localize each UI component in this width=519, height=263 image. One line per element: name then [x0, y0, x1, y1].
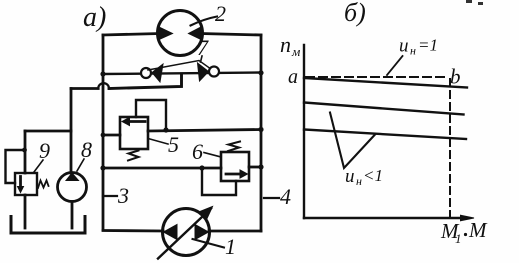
- tee wire to valve 9: [25, 130, 71, 133]
- node pilot tap valve 5: [163, 127, 168, 132]
- label 3 line tick: [103, 195, 117, 197]
- svg-text:М: М: [468, 218, 488, 242]
- svg-text:а): а): [83, 2, 106, 33]
- wire valve 5 out: [148, 130, 261, 132]
- lever 7 pivot right: [209, 67, 219, 77]
- wire pump 8 to tank: [71, 202, 74, 229]
- valve 6: [202, 142, 249, 196]
- svg-text:1: 1: [225, 234, 236, 259]
- node valve5 out at right rail: [258, 127, 263, 132]
- svg-text:5: 5: [168, 132, 179, 157]
- wire bottom rail left: [103, 229, 163, 232]
- label u_n<1: [345, 166, 383, 188]
- svg-text:9: 9: [39, 138, 50, 163]
- svg-text:а: а: [288, 66, 298, 88]
- branch vertical wire to pump 8: [70, 89, 73, 174]
- wire left rail to valve 6: [103, 167, 221, 170]
- wire bottom rail right: [209, 230, 261, 233]
- x axis label M1: [440, 219, 462, 246]
- valve 9: [6, 148, 49, 195]
- valve 6 pilot loop: [202, 168, 236, 195]
- wire hop over left rail: [98, 83, 109, 88]
- svg-text:б): б): [344, 0, 366, 27]
- wire valve 9 to tank: [24, 195, 27, 228]
- valve 6 spring: [228, 142, 240, 152]
- wire top rail left: [103, 34, 159, 36]
- hydraulic motor 2: [158, 11, 203, 56]
- curve u<1 lower: [304, 130, 466, 140]
- wire top rail right: [201, 34, 261, 36]
- svg-text:6: 6: [192, 139, 203, 164]
- svg-text:u: u: [399, 36, 409, 57]
- wire valve 6 out: [249, 166, 261, 169]
- label 7: [197, 35, 209, 62]
- valve 5: [120, 100, 166, 161]
- wire left rail to valve 5: [103, 134, 120, 137]
- valve 9 pilot loop: [6, 150, 26, 183]
- x axis: [304, 217, 468, 219]
- svg-text:7: 7: [197, 35, 209, 60]
- label 4 line tick: [264, 197, 279, 199]
- lever line wire: [103, 73, 261, 75]
- label u_n=1: [399, 36, 438, 58]
- lever 7 right roller arrow: [198, 63, 209, 81]
- wire from hop to branch: [71, 87, 98, 90]
- wire right rail: [260, 35, 263, 231]
- svg-text:3: 3: [117, 183, 129, 208]
- svg-text:u: u: [345, 166, 355, 187]
- svg-text:н: н: [410, 44, 416, 58]
- svg-text:n: n: [280, 32, 291, 57]
- lever 7 left roller arrow: [152, 64, 163, 82]
- node valve6 line at rail: [100, 165, 105, 170]
- curve u<1 upper: [304, 103, 464, 115]
- axis label n_m: [280, 32, 300, 59]
- svg-text:b: b: [450, 65, 461, 89]
- label 1: [193, 234, 237, 259]
- svg-text:4: 4: [280, 184, 291, 209]
- tank: [11, 217, 85, 234]
- label 2: [191, 1, 227, 26]
- dot before M: [464, 233, 467, 236]
- valve 5 pilot loop: [136, 100, 166, 130]
- pump 1: [158, 207, 213, 259]
- label 9: [34, 138, 50, 172]
- y axis: [303, 45, 305, 218]
- svg-text:м: м: [291, 44, 300, 59]
- node valve6 out at right rail: [258, 164, 263, 169]
- pump 1 variable arrow: [158, 209, 211, 259]
- leader u_n=1: [387, 56, 403, 75]
- specks top right: [466, 0, 483, 5]
- svg-text:8: 8: [81, 137, 92, 162]
- valve 9 spring: [38, 181, 49, 189]
- svg-text:1: 1: [455, 231, 462, 246]
- wire left rail: [102, 35, 105, 230]
- valve 5 spring: [128, 151, 139, 161]
- dashed vertical at M1: [449, 79, 451, 222]
- lever 7 rod: [148, 61, 210, 71]
- svg-text:2: 2: [215, 1, 226, 26]
- node valve5 line at rail: [101, 133, 106, 138]
- lever 7 pivot left: [141, 68, 151, 78]
- bracket wire under lever: [109, 74, 182, 89]
- pump 8: [58, 173, 87, 202]
- label 8: [77, 137, 92, 171]
- node pilot tap valve 6: [199, 165, 204, 170]
- dashed level line а-в: [306, 76, 447, 78]
- x axis arrow: [461, 215, 475, 221]
- label 6: [192, 139, 221, 164]
- svg-text:н: н: [356, 174, 362, 188]
- node at left rail / lever: [100, 71, 105, 76]
- label 5: [148, 132, 179, 157]
- leader lines u_n<1: [330, 113, 375, 169]
- node at right rail / lever: [258, 70, 263, 75]
- svg-text:=1: =1: [418, 36, 438, 55]
- svg-text:<1: <1: [363, 166, 383, 185]
- curve u=1: [304, 78, 467, 88]
